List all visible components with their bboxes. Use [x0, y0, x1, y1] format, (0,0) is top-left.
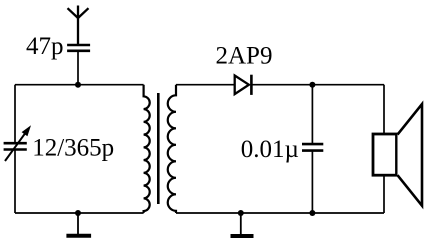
wire left loop top — [15, 84, 144, 86]
wire right loop top right of diode — [251, 84, 384, 86]
variable capacitor arrow — [5, 125, 31, 161]
node A junction dot top — [75, 82, 81, 88]
transformer secondary winding L2 — [168, 85, 176, 213]
antenna — [68, 6, 89, 45]
capacitor C1 47p — [67, 45, 90, 51]
wire right loop right upper — [383, 85, 385, 134]
wire capacitor branch lower — [311, 151, 313, 213]
svg-text:0.01µ: 0.01µ — [241, 136, 299, 163]
speaker LS1 — [373, 104, 422, 206]
junction dot bottom left — [75, 210, 81, 216]
wire capacitor branch upper — [311, 85, 313, 144]
node B junction dot after diode — [309, 82, 315, 88]
wire right loop bottom — [176, 212, 384, 214]
wire left loop left upper — [14, 85, 16, 144]
capacitor C2 0.01u — [302, 144, 323, 151]
svg-text:2AP9: 2AP9 — [216, 42, 273, 69]
wire right loop top left of diode — [176, 84, 235, 86]
wire antenna cap to top node — [77, 51, 79, 85]
transformer core — [157, 93, 160, 204]
wire right loop right lower — [383, 175, 385, 213]
ground left — [66, 213, 91, 236]
ground right — [231, 213, 254, 236]
diode D1 2AP9 — [235, 75, 252, 95]
svg-text:12/365p: 12/365p — [32, 134, 114, 161]
wire left loop left lower — [14, 150, 16, 214]
junction dot capacitor bottom — [309, 210, 315, 216]
svg-text:47p: 47p — [26, 33, 64, 60]
wire left loop bottom — [15, 212, 144, 214]
variable capacitor 12/365p — [4, 143, 27, 149]
junction dot ground right — [238, 210, 244, 216]
transformer primary winding L1 — [144, 85, 150, 213]
